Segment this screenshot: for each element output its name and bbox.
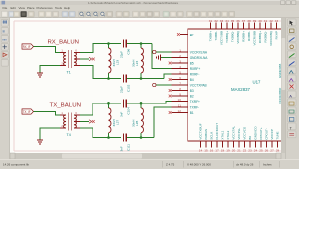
svg-text:40: 40 (258, 19, 262, 23)
pin 36 VCCBBQ (top) (236, 19, 240, 44)
no-connect T4 center tap (92, 120, 95, 123)
svg-text:32: 32 (214, 19, 218, 23)
pin 25 CPOUT+ (bottom) (259, 127, 263, 153)
pin 35 TXBBQ- (top) (231, 19, 235, 42)
svg-text:VCCCP: VCCCP (270, 129, 274, 140)
svg-text:34: 34 (225, 19, 229, 23)
svg-text:22: 22 (243, 149, 247, 153)
svg-text:18: 18 (221, 149, 225, 153)
no-connect EP (177, 33, 180, 36)
svg-text:File: File (3, 6, 8, 10)
svg-text:VCCRXLNA: VCCRXLNA (190, 50, 208, 54)
svg-text:22pF: 22pF (120, 86, 124, 93)
svg-text:22pF: 22pF (120, 51, 124, 58)
svg-text:28: 28 (276, 149, 280, 153)
svg-text:RXBBI+: RXBBI+ (242, 31, 246, 42)
svg-text:10: 10 (178, 98, 182, 102)
node junctions TX left (107, 102, 110, 105)
wire T4 pin2 to ground (40, 128, 60, 140)
svg-text:L24: L24 (135, 61, 139, 66)
svg-text:Edit: Edit (11, 6, 16, 10)
svg-text:B5: B5 (190, 61, 194, 65)
svg-text:C96: C96 (126, 49, 130, 55)
wire T1 center tap stub (80, 58, 89, 60)
svg-text:8: 8 (179, 87, 181, 91)
svg-text:VCCPLL: VCCPLL (237, 128, 241, 140)
svg-text:SCLK: SCLK (210, 132, 214, 140)
svg-text:Inches: Inches (263, 163, 272, 167)
svg-text:GNDRXLNA: GNDRXLNA (190, 56, 209, 60)
svg-text:CLOCKOUT: CLOCKOUT (215, 123, 219, 140)
wire TX_IF to T4 pin1 (34, 112, 61, 116)
wire TX top rail to TXRF+ pin10 (127, 102, 172, 104)
no-connect pin 6 (169, 78, 172, 81)
svg-text:RXHP: RXHP (275, 31, 279, 39)
svg-text:21: 21 (237, 149, 241, 153)
pin 34 TXBBQ+ (top) (225, 19, 229, 43)
svg-text:15: 15 (204, 149, 208, 153)
pin 19 XTAL2 (bottom) (226, 130, 230, 152)
no-connect pin 8 (169, 89, 172, 92)
svg-text:RX_BALUN: RX_BALUN (48, 40, 80, 46)
svg-text:EP: EP (190, 33, 194, 37)
svg-text:20: 20 (232, 149, 236, 153)
wire TX bottom rail to TXRF- pin11 (154, 107, 172, 138)
svg-text:4: 4 (179, 65, 181, 69)
svg-text:U17: U17 (253, 80, 261, 85)
svg-text:RXBBQ+: RXBBQ+ (258, 31, 262, 44)
svg-text:dx 48.0 dy 26: dx 48.0 dy 26 (236, 163, 254, 167)
capacitor C96 (120, 40, 131, 59)
wire T1 secondary bottom to RX bottom rail (80, 66, 121, 79)
pin 2 GNDRXLNA (172, 54, 209, 60)
wire RX top rail mid (127, 43, 152, 45)
pin 43 RXHP (top) (275, 19, 279, 39)
svg-text:26: 26 (265, 149, 269, 153)
svg-text:Help: Help (64, 6, 71, 10)
svg-text:VCCTXPAB: VCCTXPAB (190, 83, 207, 87)
svg-text:19: 19 (226, 149, 230, 153)
svg-text:37: 37 (242, 19, 246, 23)
pin 23 B6 (bottom) (248, 136, 252, 153)
hierarchical label TX_IF (22, 109, 34, 114)
svg-text:39: 39 (253, 19, 257, 23)
power VCC pin7 (153, 83, 172, 86)
svg-text:3nF: 3nF (120, 146, 124, 151)
transformer T1 (60, 49, 80, 75)
svg-text:MAX2837: MAX2837 (231, 87, 250, 92)
svg-text:Preferences: Preferences (37, 6, 54, 10)
pin 28 TUNE (bottom) (276, 131, 280, 152)
svg-text:9: 9 (179, 92, 181, 96)
svg-text:33nH: 33nH (131, 120, 135, 127)
wire RX top rail to RXRF+ pin4 (152, 44, 172, 69)
svg-text:B6: B6 (248, 136, 252, 140)
svg-text:41: 41 (264, 19, 268, 23)
pin 6 B4 (172, 76, 194, 82)
svg-text:XTAL2: XTAL2 (226, 130, 230, 139)
svg-text:in: in (3, 29, 6, 33)
svg-text:X 48.000 Y 26.000: X 48.000 Y 26.000 (187, 163, 211, 167)
node junctions RX left (107, 42, 110, 45)
svg-text:5: 5 (179, 70, 181, 74)
no-connect pin 12 (169, 111, 172, 114)
svg-text:VCCVCO: VCCVCO (243, 126, 247, 140)
wire RX_IF to T1 pin1 (34, 47, 61, 53)
svg-text:CPOUT-: CPOUT- (265, 128, 269, 139)
svg-text:C104: C104 (126, 107, 130, 115)
svg-text:1-Schematic-B/hackrf-one/Schem: 1-Schematic-B/hackrf-one/Schematic1.sch … (88, 1, 179, 5)
wire RX bottom rail mid (127, 78, 164, 80)
pin 10 TXRF+ (172, 98, 201, 104)
pin 26 CPOUT- (bottom) (265, 128, 269, 152)
pin 8 B3 (172, 87, 194, 93)
pin 15 PABIAS (bottom) (204, 129, 208, 153)
wire T1 pin2 to ground (40, 66, 60, 73)
pin 16 SCLK (bottom) (210, 132, 214, 153)
capacitor C102 (120, 75, 131, 94)
svg-text:27: 27 (270, 149, 274, 153)
svg-text:VCCRXBB: VCCRXBB (253, 31, 257, 46)
svg-text:24: 24 (254, 149, 258, 153)
transformer T4 (60, 111, 80, 137)
svg-text:L23: L23 (116, 60, 120, 65)
svg-text:Z 4.75: Z 4.75 (166, 163, 175, 167)
svg-text:2: 2 (179, 54, 181, 58)
node junctions RX right (140, 42, 143, 45)
svg-text:VCCTXBB: VCCTXBB (220, 31, 224, 45)
pin 3 B5 (172, 59, 194, 65)
svg-text:38: 38 (247, 19, 251, 23)
pin 7 VCCTXPAB (172, 81, 207, 87)
inductor L28 (131, 103, 143, 137)
svg-text:B2: B2 (190, 94, 194, 98)
svg-text:14: 14 (199, 149, 203, 153)
pin 31 TXBBI+ (top) (209, 19, 213, 42)
svg-text:TXBBI-: TXBBI- (214, 31, 218, 41)
node junctions TX right (140, 102, 143, 105)
svg-text:42: 42 (269, 19, 273, 23)
svg-text:1: 1 (179, 48, 181, 52)
svg-text:T4: T4 (67, 133, 71, 137)
pin 37 RXBBI+ (top) (242, 19, 246, 42)
svg-text:B4: B4 (190, 78, 194, 82)
svg-text:16: 16 (210, 149, 214, 153)
svg-text:Place: Place (27, 6, 35, 10)
svg-text:RXBBQ-: RXBBQ- (264, 31, 268, 43)
capacitor C111 (120, 134, 131, 152)
svg-text:7: 7 (179, 81, 181, 85)
svg-text:VCCTXBUF: VCCTXBUF (199, 123, 203, 139)
svg-text:RX_IF: RX_IF (23, 45, 31, 49)
pin 41 RXBBQ- (top) (264, 19, 268, 43)
svg-text:XTAL1: XTAL1 (221, 130, 225, 139)
pin 21 VCCPLL (bottom) (237, 128, 241, 153)
svg-text:VCCRXBQ: VCCRXBQ (269, 30, 273, 46)
pin 27 VCCCP (bottom) (270, 129, 274, 153)
pin 40 RXBBQ+ (top) (258, 19, 262, 43)
svg-text:TXBBI+: TXBBI+ (209, 31, 213, 42)
svg-text:3nF: 3nF (120, 112, 124, 117)
wire RX bottom rail to RXRF- pin5 (164, 74, 172, 79)
svg-text:PABIAS: PABIAS (204, 129, 208, 140)
pin 1 VCCRXLNA (172, 48, 208, 54)
svg-text:L27: L27 (116, 120, 120, 125)
wire T4 secondary top to TX top rail (80, 103, 121, 115)
svg-text:6: 6 (179, 76, 181, 80)
svg-text:VCCBBQ: VCCBBQ (236, 30, 240, 43)
svg-text:33nH: 33nH (131, 60, 135, 67)
capacitor C104 (120, 99, 131, 117)
svg-text:RXRF+: RXRF+ (190, 67, 201, 71)
svg-text:RXBBI-: RXBBI- (247, 31, 251, 41)
pin 33 VCCTXBB (top) (220, 19, 224, 45)
pin 20 VCCXTAL (bottom) (232, 126, 236, 153)
svg-text:A: A (289, 94, 292, 99)
svg-text:T1: T1 (67, 71, 71, 75)
ground pin2 (161, 57, 172, 59)
pin 12 B1 (172, 109, 194, 115)
svg-text:mm: mm (2, 37, 7, 41)
pin 4 RXRF+ (172, 65, 201, 71)
wire T1 secondary top to RX top rail (80, 44, 121, 53)
pin 11 TXRF- (172, 103, 200, 109)
pin 42 VCCRXBQ (top) (269, 19, 273, 46)
hierarchical label RX_IF (22, 44, 34, 49)
svg-text:TXBBQ+: TXBBQ+ (225, 31, 229, 43)
no-connect T1 center tap (92, 58, 95, 61)
svg-text:14.26 component lib: 14.26 component lib (3, 163, 29, 167)
wire TX bottom rail mid (127, 137, 154, 139)
pin 17 CLOCKOUT (bottom) (215, 123, 219, 153)
ground RX (37, 73, 43, 77)
svg-text:CPOUT+: CPOUT+ (259, 127, 263, 140)
sheet border frame (14, 21, 281, 151)
svg-text:TUNE: TUNE (276, 131, 280, 139)
pin 18 XTAL1 (bottom) (221, 130, 225, 152)
svg-text:L28: L28 (135, 121, 139, 126)
wire T4 center tap stub (80, 121, 89, 123)
svg-text:B1: B1 (190, 111, 194, 115)
svg-text:3: 3 (179, 59, 181, 63)
pin 9 B2 (172, 92, 194, 98)
inductor L23 (109, 44, 120, 79)
pin 14 VCCTXBUF (bottom) (199, 123, 203, 152)
svg-text:11: 11 (178, 103, 181, 107)
pin EP (180, 33, 194, 37)
svg-text:31: 31 (209, 19, 213, 23)
svg-text:VCCXTAL: VCCXTAL (232, 126, 236, 140)
svg-text:36: 36 (236, 19, 240, 23)
svg-text:33: 33 (220, 19, 224, 23)
pin 24 GNDVCO (bottom) (254, 126, 258, 153)
svg-text:C111: C111 (126, 144, 130, 151)
svg-text:GNDVCO: GNDVCO (254, 126, 258, 140)
svg-text:B3: B3 (190, 89, 194, 93)
svg-text:Tools: Tools (55, 6, 63, 10)
svg-text:TXRF-: TXRF- (190, 105, 199, 109)
wire T4 secondary bottom to TX bottom rail (80, 128, 121, 138)
svg-text:C102: C102 (126, 84, 130, 92)
inductor L27 (109, 103, 120, 137)
svg-text:23: 23 (248, 149, 252, 153)
pin 32 TXBBI- (top) (214, 19, 218, 41)
pin 5 RXRF- (172, 70, 200, 76)
svg-text:View: View (19, 6, 26, 10)
no-connect pin 9 (169, 95, 172, 98)
svg-text:TXRF+: TXRF+ (190, 100, 200, 104)
IC U17 MAX2837 body (188, 29, 285, 141)
svg-text:12: 12 (178, 109, 182, 113)
pin 39 VCCRXBB (top) (253, 19, 257, 46)
svg-text:43: 43 (275, 19, 279, 23)
pin 38 RXBBI- (top) (247, 19, 251, 41)
svg-text:25: 25 (259, 149, 263, 153)
svg-text:TX_IF: TX_IF (23, 110, 31, 114)
svg-text:RXRF-: RXRF- (190, 72, 200, 76)
power VCC pin1 (153, 50, 172, 53)
pin 22 VCCVCO (bottom) (243, 126, 247, 153)
svg-text:TX_BALUN: TX_BALUN (50, 103, 82, 109)
no-connect pin 3 (169, 62, 172, 65)
svg-text:TXBBQ-: TXBBQ- (231, 31, 235, 42)
inductor L24 (131, 44, 143, 79)
svg-text:35: 35 (231, 19, 235, 23)
ground TX (37, 140, 43, 144)
svg-text:17: 17 (215, 149, 219, 153)
